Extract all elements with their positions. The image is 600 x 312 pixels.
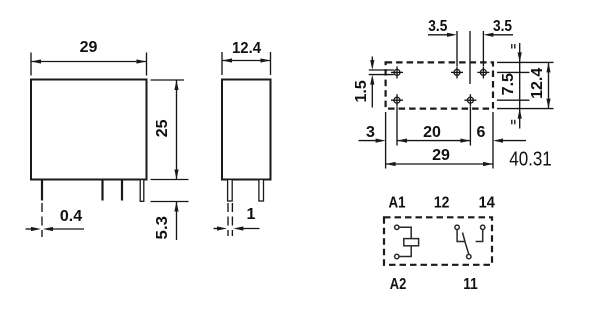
wire terminal 12 fixed contact [457, 230, 465, 242]
schematic dashed outline [384, 217, 492, 264]
svg-text:14: 14 [479, 194, 495, 211]
dimension 12.4 (drilling plan height) [529, 62, 550, 108]
svg-text:29: 29 [80, 39, 98, 56]
hole top-left [391, 66, 403, 78]
dimension 6 (right hole offset) [477, 124, 526, 143]
front view pin 3 [121, 180, 123, 201]
terminal 11 [467, 254, 471, 258]
front view pin 1 [41, 180, 43, 201]
hole top-middle [451, 66, 463, 78]
dimension 12.4 (side view width) [222, 40, 271, 75]
svg-text:A1: A1 [389, 194, 406, 211]
svg-text:3.5: 3.5 [428, 18, 447, 35]
svg-text:A2: A2 [390, 276, 407, 293]
hole bottom-right [464, 94, 476, 106]
dimension 0.4 (front view pin thickness) [26, 203, 85, 237]
bottom extension lines [386, 107, 493, 169]
equality mark bottom [512, 120, 515, 125]
terminal A2 [395, 254, 399, 258]
svg-text:3: 3 [366, 124, 375, 141]
svg-text:1.5: 1.5 [353, 80, 370, 102]
dimension 29 (drilling plan width) [386, 147, 493, 166]
side view pin right (hollow) [259, 180, 264, 202]
wire A1 to coil [399, 227, 411, 238]
svg-text:11: 11 [463, 276, 478, 293]
front view pin 4 (hollow) [140, 180, 144, 202]
wire terminal 14 fixed contact [476, 230, 483, 242]
front view pin 2 [101, 180, 103, 201]
right side extension lines [497, 62, 554, 108]
dimension 29 (front view width) [31, 39, 147, 75]
svg-text:6: 6 [477, 124, 486, 141]
svg-text:25: 25 [154, 119, 171, 137]
terminal 14 [481, 225, 485, 229]
wire coil to A2 [399, 246, 411, 257]
front view relay body [31, 80, 147, 180]
svg-text:29: 29 [432, 147, 450, 164]
svg-text:12.4: 12.4 [232, 40, 261, 57]
svg-text:40.31: 40.31 [509, 148, 552, 170]
terminal 12 [455, 225, 459, 229]
hole bottom-left [391, 94, 403, 106]
dimension 1 (side view pin width) [214, 203, 260, 236]
equality mark top [512, 44, 515, 49]
side view relay body [222, 80, 271, 180]
svg-text:1: 1 [247, 206, 256, 223]
svg-text:3.5: 3.5 [493, 18, 512, 35]
svg-text:0.4: 0.4 [60, 208, 82, 225]
dimension 3.5 / 3.5 (hole spacing top) [428, 18, 513, 84]
svg-text:12: 12 [434, 194, 450, 211]
dimension 25 (front view height) [151, 80, 189, 180]
svg-text:12.4: 12.4 [529, 68, 546, 99]
hole top-right [477, 66, 489, 78]
dimension 1.5 (hole diameter) [353, 57, 394, 108]
dimension 3 (left hole offset) [359, 124, 386, 143]
side view pin left (hollow) [228, 180, 233, 202]
coil [404, 239, 419, 246]
svg-text:7.5: 7.5 [500, 73, 517, 95]
svg-text:20: 20 [423, 124, 441, 141]
drilling plan dashed outline [386, 62, 493, 108]
equal-margin marker line with arrows [518, 43, 522, 129]
movable contact blade [463, 233, 469, 255]
svg-text:5.3: 5.3 [154, 216, 171, 240]
dimension 5.3 (front view pin length) [151, 202, 189, 241]
dimension 20 (hole column spacing) [397, 124, 470, 143]
terminal A1 [395, 225, 399, 229]
